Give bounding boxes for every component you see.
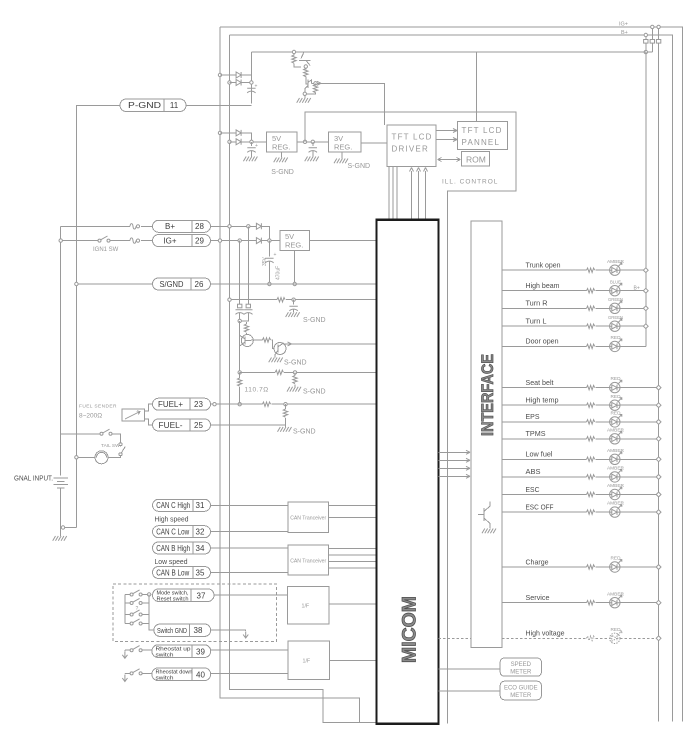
transistor Q1 (PNP high side) bbox=[299, 52, 311, 70]
wire driver-pannel data 2 bbox=[436, 139, 456, 141]
IC MICOM bbox=[377, 220, 439, 724]
svg-text:Service: Service bbox=[526, 593, 550, 602]
svg-text:P-GND: P-GND bbox=[128, 101, 161, 110]
wire IG+ left drop bbox=[220, 27, 377, 723]
wire micom to interface arrow 3 bbox=[438, 467, 469, 469]
svg-text:+: + bbox=[255, 143, 258, 149]
switch rheostat down bbox=[125, 672, 130, 674]
indicator row ABS bbox=[502, 466, 661, 483]
svg-text:CAN Tranceiver: CAN Tranceiver bbox=[290, 559, 326, 565]
junction Q2 emitter bbox=[303, 92, 306, 95]
svg-text:switch: switch bbox=[156, 676, 174, 682]
wire 1/F1 to micom bbox=[329, 603, 376, 605]
svg-text:1/F: 1/F bbox=[303, 659, 311, 665]
wire IG+ row to diode bbox=[211, 240, 256, 242]
connector pin B+ 28 bbox=[153, 220, 211, 232]
svg-text:High beam: High beam bbox=[526, 281, 560, 290]
fuse F2 bbox=[130, 238, 140, 243]
wire pin39 to 1/F2 bbox=[211, 649, 289, 651]
svg-text:RED: RED bbox=[611, 556, 622, 561]
svg-text:29: 29 bbox=[195, 237, 204, 246]
ground Q5 bbox=[482, 529, 496, 534]
IC 1/F converter 1 bbox=[287, 587, 329, 625]
indicator row Trunk open bbox=[502, 259, 648, 276]
svg-text:TAIL SW: TAIL SW bbox=[101, 443, 120, 449]
svg-text:8~200Ω: 8~200Ω bbox=[79, 413, 102, 420]
ground C5 bbox=[286, 312, 300, 317]
regulator U2 3V REG bbox=[329, 132, 362, 152]
wire fuel ref chain bbox=[239, 321, 241, 371]
svg-text:RED: RED bbox=[611, 376, 622, 381]
wire B+ row to diode bbox=[211, 225, 256, 227]
resistor R8 (fuel divider) bbox=[284, 403, 287, 406]
ground Q2 bbox=[297, 98, 311, 103]
indicator row High temp bbox=[502, 394, 661, 411]
connector pin P-GND 11 bbox=[120, 99, 186, 112]
ground switch gnd arrow bbox=[243, 632, 248, 639]
lamp tail illumination bbox=[95, 451, 108, 464]
wire CAN B Low bbox=[211, 571, 288, 573]
ground rheostat up arrow bbox=[122, 652, 127, 659]
svg-text:1/F: 1/F bbox=[302, 604, 310, 610]
switch tail lamp feed bbox=[61, 433, 100, 435]
svg-text:Door open: Door open bbox=[526, 337, 559, 346]
ground C3 bbox=[305, 157, 319, 162]
svg-text:ROM: ROM bbox=[466, 155, 486, 165]
wire CAN B High bbox=[211, 547, 288, 549]
svg-text:RED: RED bbox=[611, 394, 622, 399]
switch mode row 1 bbox=[125, 594, 130, 596]
connector pin Rheostat up switch 39 bbox=[152, 645, 211, 659]
svg-text:FUEL SENDER: FUEL SENDER bbox=[79, 404, 117, 410]
junction C4 to S/GND bbox=[268, 282, 271, 285]
svg-text:Turn L: Turn L bbox=[526, 317, 547, 326]
wire switch right bus bbox=[149, 595, 154, 631]
svg-text:B+: B+ bbox=[165, 222, 175, 231]
svg-text:25: 25 bbox=[194, 421, 203, 430]
svg-text:MICOM: MICOM bbox=[399, 596, 420, 663]
svg-text:Reset switch: Reset switch bbox=[157, 597, 189, 603]
wire micom to speed meter bbox=[438, 668, 500, 670]
junction IG+ tap bbox=[59, 239, 62, 242]
indicator row Door open bbox=[502, 335, 646, 352]
connector square IG+ feeder 2 bbox=[656, 40, 660, 44]
IC CAN Tranceiver 1 bbox=[288, 502, 329, 532]
junction 5V rail branch bbox=[303, 140, 306, 143]
svg-text:DRIVER: DRIVER bbox=[392, 145, 429, 154]
wire B+ feeder stub to square bbox=[645, 35, 647, 52]
svg-text:35: 35 bbox=[196, 568, 205, 577]
resistor R2 (fuel ref) bbox=[244, 324, 248, 332]
svg-text:METER: METER bbox=[510, 670, 532, 676]
capacitor C7 bbox=[244, 310, 252, 315]
wire FUEL+ row to micom bbox=[211, 403, 262, 405]
svg-text:40: 40 bbox=[196, 671, 205, 680]
connector pin CAN B High 34 bbox=[153, 542, 211, 554]
svg-text:RED: RED bbox=[611, 411, 622, 416]
wire S/GND row bbox=[76, 283, 152, 285]
resistor R5 (to gnd) bbox=[293, 371, 296, 374]
IC 1/F converter 2 bbox=[288, 641, 329, 680]
svg-text:METER: METER bbox=[510, 693, 532, 699]
svg-text:GNAL INPUT.: GNAL INPUT. bbox=[14, 474, 53, 483]
svg-text:ESC: ESC bbox=[526, 485, 541, 494]
wire transceiver2 out 2 bbox=[329, 554, 377, 556]
wire ROM to driver bbox=[439, 159, 461, 161]
wire driver to micom 1 bbox=[388, 167, 390, 220]
wire transceiver2 out 3 bbox=[329, 560, 377, 562]
svg-text:+: + bbox=[274, 252, 277, 258]
wire fuel reference drop B bbox=[247, 226, 249, 304]
connector pin Mode/Reset switch 37 bbox=[153, 589, 215, 603]
regulator U6 5V REG (micom supply) bbox=[280, 231, 310, 251]
connector pin Rheostat down switch 40 bbox=[152, 668, 211, 682]
resistor R6 110.7 ohm bbox=[239, 372, 241, 378]
switch group dashed box bbox=[113, 584, 277, 641]
wire micom high voltage dashed bbox=[438, 637, 471, 639]
svg-text:PANNEL: PANNEL bbox=[462, 138, 501, 147]
svg-text:37: 37 bbox=[197, 592, 206, 601]
wire B+ pin row bbox=[61, 225, 130, 227]
wire S/GND to micom bbox=[211, 283, 377, 285]
resistor Q2 load bbox=[314, 82, 317, 85]
svg-text:31: 31 bbox=[196, 501, 205, 510]
wire micom aux vertical bbox=[447, 191, 449, 723]
junction fuel+ node bbox=[238, 403, 241, 406]
wire micom to driver arrow 1 bbox=[411, 171, 413, 220]
transistor Q2 (illumination driver) bbox=[305, 80, 312, 93]
connector pin Switch GND 38 bbox=[154, 624, 211, 636]
switch mode row 4 bbox=[125, 623, 130, 625]
transistor Q5 (lamp driver) bbox=[478, 502, 490, 529]
svg-text:S-GND: S-GND bbox=[271, 169, 294, 176]
wire transceiver2 out 1 bbox=[329, 547, 377, 549]
connector pin FUEL+ 23 bbox=[153, 398, 211, 410]
svg-text:High speed: High speed bbox=[155, 515, 189, 524]
diode D4 (B+ bus to 5V reg) bbox=[228, 140, 231, 143]
svg-text:S/GND: S/GND bbox=[160, 280, 184, 289]
wire micom to interface arrow 2 bbox=[438, 459, 469, 461]
wire Q2 output to LCD bbox=[311, 83, 384, 125]
connector square B+ feeder bbox=[644, 40, 648, 44]
svg-text:34: 34 bbox=[196, 544, 205, 553]
svg-text:switch: switch bbox=[156, 653, 174, 659]
svg-text:High voltage: High voltage bbox=[526, 629, 565, 638]
svg-text:ECO GUIDE: ECO GUIDE bbox=[504, 685, 538, 691]
wire driver to micom 3 bbox=[396, 167, 398, 220]
svg-text:Trunk open: Trunk open bbox=[526, 261, 561, 270]
memory U5 ROM bbox=[462, 152, 490, 167]
ground 5V reg2 pin to S/GND bbox=[294, 250, 296, 282]
regulator U1 5V REG bbox=[267, 132, 298, 152]
svg-text:110.7Ω: 110.7Ω bbox=[245, 387, 269, 394]
indicator row ESC OFF bbox=[502, 501, 661, 518]
svg-text:32: 32 bbox=[196, 528, 205, 537]
svg-text:11: 11 bbox=[170, 101, 179, 110]
ground FUEL- bbox=[278, 427, 292, 432]
wire IG+ top bus bbox=[220, 27, 682, 722]
svg-text:S-GND: S-GND bbox=[303, 389, 326, 396]
wire micom to interface arrow 1 bbox=[438, 451, 469, 453]
wire pin40 to 1/F2 bbox=[211, 672, 289, 674]
wire TFT pannel power drop bbox=[475, 52, 477, 122]
svg-text:Turn R: Turn R bbox=[526, 299, 549, 308]
svg-text:38: 38 bbox=[194, 626, 203, 635]
wire driver-pannel data 1 bbox=[436, 130, 456, 132]
indicator row Service bbox=[502, 591, 661, 608]
wire micom to driver arrow 3 bbox=[425, 171, 427, 220]
svg-text:CAN C High: CAN C High bbox=[156, 501, 190, 510]
connector pin IG+ 29 bbox=[153, 235, 211, 247]
svg-text:26: 26 bbox=[195, 280, 204, 289]
junction IG+ stub 1 bbox=[651, 25, 654, 28]
indicator row Seat belt bbox=[502, 376, 661, 393]
diode D1 (to IG+ bus) bbox=[218, 73, 221, 76]
svg-text:23: 23 bbox=[194, 400, 203, 409]
svg-text:470uF: 470uF bbox=[276, 266, 282, 280]
svg-text:REG.: REG. bbox=[334, 142, 352, 151]
transistor Q4 (fuel driver) bbox=[274, 343, 286, 355]
capacitor C1 (P-GND rail) bbox=[247, 88, 255, 93]
resistor Q1-Q2 link bbox=[304, 69, 308, 77]
svg-text:+: + bbox=[255, 84, 258, 90]
indicator row High voltage (dashed) bbox=[502, 627, 661, 644]
transistor Q3 (fuel sense) bbox=[241, 335, 253, 347]
diode D6 (IG+ to reg2) bbox=[256, 238, 261, 244]
fuse F1 bbox=[130, 224, 140, 229]
wire B+ top bus bbox=[230, 35, 673, 722]
resistor R1 (bias) bbox=[277, 298, 285, 302]
IC CAN Tranceiver 2 bbox=[288, 545, 329, 575]
svg-text:FUEL+: FUEL+ bbox=[158, 400, 183, 409]
diode D5 (B+ to reg2) bbox=[256, 223, 261, 229]
svg-text:TFT LCD: TFT LCD bbox=[462, 126, 503, 135]
connector pin CAN C High 31 bbox=[153, 499, 211, 511]
ground C2 bbox=[243, 157, 257, 162]
ground rheostat down arrow bbox=[122, 675, 127, 682]
indicator row Turn R bbox=[502, 297, 648, 314]
svg-text:High temp: High temp bbox=[526, 396, 559, 405]
wire P-GND right bbox=[186, 104, 251, 106]
wire fuel reference drop A bbox=[239, 241, 241, 305]
wire 5V reg2 output to micom bbox=[310, 240, 377, 242]
ground 5V REG pin bbox=[281, 152, 283, 158]
connector pin CAN C Low 32 bbox=[153, 526, 211, 538]
svg-text:IG+: IG+ bbox=[163, 237, 176, 246]
switch mode row 2 bbox=[125, 602, 130, 604]
svg-text:39: 39 bbox=[196, 648, 205, 657]
wire top rail to indicator bus bbox=[251, 51, 645, 53]
wire sensor bias row bbox=[230, 299, 277, 301]
indicator row ESC bbox=[502, 483, 661, 500]
ground main bbox=[53, 536, 67, 541]
svg-text:FUEL-: FUEL- bbox=[159, 421, 183, 430]
indicator row High beam bbox=[502, 279, 648, 296]
svg-text:ABS: ABS bbox=[526, 467, 541, 476]
svg-text:CAN B High: CAN B High bbox=[156, 544, 190, 553]
svg-text:CAN C Low: CAN C Low bbox=[156, 528, 189, 537]
wire switch left bus bbox=[124, 595, 126, 624]
svg-text:S-GND: S-GND bbox=[348, 163, 371, 170]
wire CAN C Low bbox=[211, 531, 288, 533]
wire micom to driver arrow 2 bbox=[418, 171, 420, 220]
svg-text:CAN Tranceiver: CAN Tranceiver bbox=[290, 516, 326, 522]
wire LED B+ bus (rows 1-5) bbox=[645, 52, 647, 346]
svg-text:EPS: EPS bbox=[526, 412, 540, 421]
svg-text:Switch GND: Switch GND bbox=[157, 626, 187, 635]
svg-text:REG.: REG. bbox=[272, 142, 290, 151]
svg-text:S-GND: S-GND bbox=[293, 429, 316, 436]
wire ILL control boundary bbox=[305, 112, 516, 723]
wire P-GND feeder vertical bbox=[250, 52, 252, 104]
resistor R3 (base link) bbox=[262, 338, 270, 342]
connector square cap A bbox=[238, 304, 242, 308]
svg-text:28: 28 bbox=[195, 222, 204, 231]
switch rheostat up bbox=[125, 649, 130, 651]
meter ECO GUIDE METER bbox=[500, 681, 541, 700]
connector pin CAN B Low 35 bbox=[153, 567, 211, 579]
IC INTERFACE bbox=[471, 221, 502, 648]
svg-text:IGN1 SW: IGN1 SW bbox=[93, 247, 119, 253]
op-amp U3 TFT LCD DRIVER bbox=[387, 125, 436, 167]
wire micom to eco meter bbox=[438, 690, 500, 692]
switch mode row 3 bbox=[125, 614, 130, 616]
junction lamp to P-GND line bbox=[75, 456, 78, 459]
wire sender to fuel- bbox=[145, 419, 153, 425]
wire FUEL- row bbox=[211, 425, 286, 427]
capacitor C4 470uF bbox=[268, 241, 270, 257]
junction circle lamp bus node bbox=[644, 50, 647, 53]
meter SPEED METER bbox=[500, 658, 541, 676]
indicator row EPS bbox=[502, 411, 661, 428]
wire transceiver1 out 2 bbox=[329, 517, 377, 519]
connector pin S/GND 26 bbox=[153, 278, 211, 290]
indicator row Low fuel bbox=[502, 448, 661, 465]
wire switch gnd bbox=[211, 629, 246, 632]
wire pin37 to 1/F bbox=[214, 594, 287, 596]
ground 3V REG pin bbox=[341, 152, 343, 159]
connector square IG+ feeder 1 bbox=[650, 40, 654, 44]
capacitor C3 (3V reg input) bbox=[311, 140, 314, 143]
resistor R7 (fuel+) bbox=[262, 402, 270, 406]
svg-text:TFT LCD: TFT LCD bbox=[392, 133, 433, 142]
wire micom to interface arrow 4 bbox=[438, 475, 469, 477]
svg-text:CAN B Low: CAN B Low bbox=[156, 568, 189, 577]
svg-text:S-GND: S-GND bbox=[284, 360, 307, 367]
transistor Q1 base resistor bbox=[292, 50, 295, 53]
wire CAN C High bbox=[211, 504, 288, 506]
svg-text:ILL. CONTROL: ILL. CONTROL bbox=[442, 179, 498, 186]
svg-text:Charge: Charge bbox=[526, 557, 549, 566]
capacitor C5 (bias filter) bbox=[292, 298, 295, 301]
junction IG+ stub 2 bbox=[657, 25, 660, 28]
svg-text:REG.: REG. bbox=[285, 241, 303, 250]
svg-text:RED: RED bbox=[611, 335, 622, 340]
connector square cap B bbox=[246, 304, 250, 308]
resistor R4 bbox=[275, 370, 283, 374]
svg-text:35V: 35V bbox=[262, 256, 268, 266]
svg-text:Seat belt: Seat belt bbox=[526, 378, 555, 387]
wire IG+ feeder stub 2 bbox=[658, 27, 660, 722]
wire transceiver2 out 4 bbox=[329, 567, 377, 569]
junction B+ stub bbox=[644, 33, 647, 36]
wire transceiver1 out 1 bbox=[329, 505, 377, 507]
svg-text:RED: RED bbox=[611, 627, 622, 632]
svg-text:BLUE: BLUE bbox=[610, 279, 621, 284]
wire B+ left drop to battery bbox=[60, 226, 62, 475]
wire IG+ pin row bbox=[61, 240, 99, 242]
switch IGN1 SW bbox=[98, 236, 110, 242]
wire 1/F2 to micom bbox=[329, 659, 376, 661]
wire driver to micom 2 bbox=[392, 167, 394, 220]
wire P-GND left bbox=[76, 105, 120, 527]
svg-text:Low fuel: Low fuel bbox=[526, 450, 553, 459]
wire fuel signal to micom bbox=[283, 343, 377, 345]
wire IG+ feeder stub 1 bbox=[646, 27, 653, 52]
capacitor C6 bbox=[236, 310, 244, 315]
svg-text:S-GND: S-GND bbox=[303, 317, 326, 324]
wire fuel comp row bbox=[238, 371, 241, 374]
ground R5 bbox=[287, 387, 301, 392]
svg-text:INTERFACE: INTERFACE bbox=[478, 354, 497, 436]
svg-text:TPMS: TPMS bbox=[526, 429, 546, 438]
svg-text:ESC OFF: ESC OFF bbox=[526, 502, 554, 511]
connector pin FUEL- 25 bbox=[153, 419, 211, 431]
svg-text:Low speed: Low speed bbox=[155, 557, 188, 566]
ground Q4 bbox=[269, 358, 283, 363]
junction fuel ref merge bbox=[238, 319, 241, 322]
indicator row Turn L bbox=[502, 315, 648, 332]
wire B+ left drop bbox=[230, 35, 377, 723]
capacitor C2 (5V reg input) bbox=[251, 142, 253, 146]
wire 5V to 3V rail bbox=[297, 141, 329, 143]
svg-text:SPEED: SPEED bbox=[511, 662, 532, 668]
diode D3 (IG+ bus to 5V reg) bbox=[218, 131, 221, 134]
wire sender to fuel+ bbox=[145, 404, 153, 411]
indicator row TPMS bbox=[502, 427, 661, 444]
wire ground merge bbox=[65, 527, 77, 529]
wire 3V to LCD driver bbox=[361, 142, 387, 144]
diode D2 (to B+ bus) bbox=[228, 81, 231, 84]
op-amp U4 TFT LCD PANNEL bbox=[458, 122, 508, 150]
indicator row Charge bbox=[502, 556, 661, 573]
